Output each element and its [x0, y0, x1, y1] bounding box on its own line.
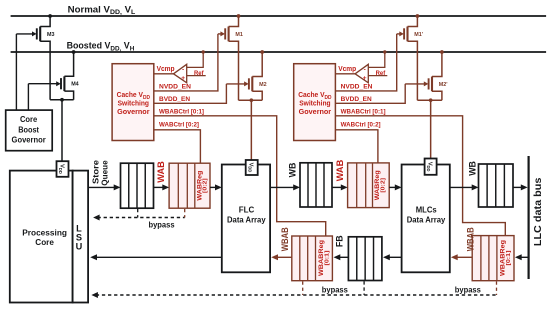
svg-text:BVDD_EN: BVDD_EN: [159, 96, 190, 103]
svg-text:[0:2]: [0:2]: [380, 178, 386, 193]
svg-text:WBAB: WBAB: [465, 227, 475, 251]
svg-text:[0:1]: [0:1]: [325, 250, 331, 265]
svg-text:Vcmp: Vcmp: [338, 66, 356, 73]
svg-text:WBAB: WBAB: [280, 227, 290, 251]
svg-text:BVDD_EN: BVDD_EN: [341, 96, 372, 103]
svg-text:bypass: bypass: [322, 286, 349, 295]
svg-text:M1: M1: [235, 32, 243, 38]
svg-text:LLC data bus: LLC data bus: [533, 177, 544, 246]
svg-text:Data Array: Data Array: [407, 215, 446, 224]
svg-text:WABCtrl [0:2]: WABCtrl [0:2]: [341, 121, 381, 128]
svg-text:WB: WB: [468, 161, 478, 176]
svg-text:Ref: Ref: [194, 70, 204, 77]
svg-text:Governor: Governor: [117, 109, 150, 116]
svg-text:Boost: Boost: [18, 126, 39, 135]
svg-text:Normal VDD, VL: Normal VDD, VL: [68, 4, 136, 16]
svg-text:M1': M1': [414, 32, 423, 38]
svg-text:WABCtrl [0:2]: WABCtrl [0:2]: [159, 121, 199, 128]
svg-text:VDD: VDD: [426, 162, 432, 172]
svg-text:M2': M2': [439, 82, 448, 88]
svg-text:[0:2]: [0:2]: [203, 178, 209, 193]
svg-text:WBABCtrl [0:1]: WBABCtrl [0:1]: [341, 108, 386, 115]
svg-text:Data Array: Data Array: [227, 215, 266, 224]
svg-text:Queue: Queue: [99, 160, 109, 186]
svg-text:Ref: Ref: [376, 70, 386, 77]
svg-text:Core: Core: [35, 238, 54, 247]
svg-text:bypass: bypass: [148, 221, 175, 230]
svg-text:-: -: [364, 67, 366, 74]
svg-text:U: U: [76, 242, 83, 252]
svg-text:bypass: bypass: [455, 286, 482, 295]
svg-text:+: +: [181, 75, 185, 82]
svg-text:+: +: [363, 75, 367, 82]
svg-text:FLC: FLC: [239, 205, 255, 214]
svg-text:M3: M3: [47, 32, 55, 38]
svg-text:M2: M2: [259, 82, 267, 88]
svg-text:WB: WB: [287, 163, 297, 178]
svg-text:-: -: [182, 67, 184, 74]
svg-text:WBABCtrl [0:1]: WBABCtrl [0:1]: [159, 108, 204, 115]
svg-text:VDD: VDD: [58, 164, 64, 174]
svg-text:VDD: VDD: [247, 163, 253, 173]
svg-text:Switching: Switching: [299, 101, 330, 108]
svg-text:Governor: Governor: [12, 135, 46, 144]
svg-text:NVDD_EN: NVDD_EN: [159, 84, 191, 91]
svg-text:MLCs: MLCs: [416, 205, 438, 214]
svg-text:WAB: WAB: [155, 161, 166, 183]
svg-text:Processing: Processing: [22, 228, 67, 237]
svg-text:FB: FB: [334, 235, 344, 247]
svg-text:Core: Core: [20, 115, 38, 124]
svg-text:Switching: Switching: [118, 101, 149, 108]
svg-text:M4: M4: [71, 82, 79, 88]
svg-text:Boosted VDD, VH: Boosted VDD, VH: [67, 41, 135, 53]
svg-text:Vcmp: Vcmp: [157, 66, 175, 73]
svg-text:WAB: WAB: [334, 160, 345, 182]
svg-text:Governor: Governor: [299, 109, 332, 116]
svg-text:[0:1]: [0:1]: [506, 250, 512, 265]
svg-text:NVDD_EN: NVDD_EN: [341, 84, 373, 91]
